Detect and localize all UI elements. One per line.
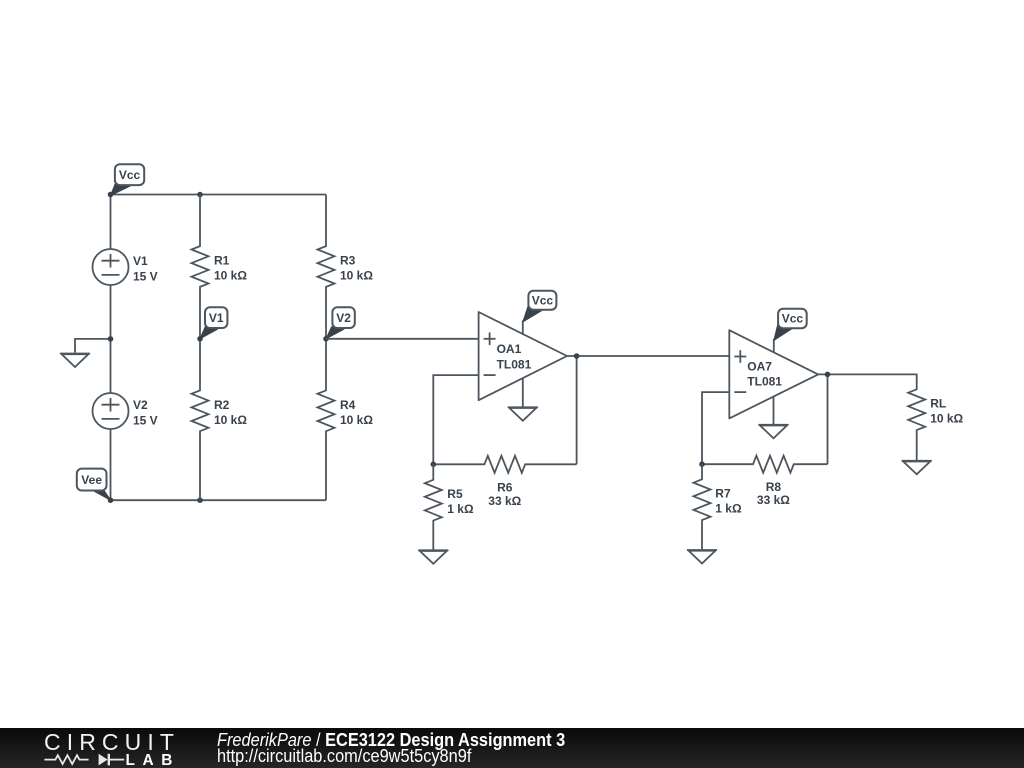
junction node (200,194.5)	[197, 192, 203, 198]
svg-text:10 kΩ: 10 kΩ	[930, 412, 963, 426]
net flag node V1	[200, 307, 227, 339]
resistor R5 1 k	[425, 464, 442, 549]
svg-text:R4: R4	[340, 398, 356, 412]
svg-text:TL081: TL081	[747, 375, 782, 389]
credit text	[217, 732, 565, 764]
svg-text:V2: V2	[133, 398, 148, 412]
svg-text:R7: R7	[715, 487, 731, 501]
svg-text:1 kΩ: 1 kΩ	[447, 502, 474, 516]
wire OA7 output	[818, 374, 917, 389]
wire OA1 feedback vertical	[576, 356, 578, 464]
svg-text:33 kΩ: 33 kΩ	[488, 494, 521, 508]
svg-text:R8: R8	[766, 480, 782, 494]
net flag Vee	[77, 469, 111, 501]
svg-text:10 kΩ: 10 kΩ	[214, 413, 247, 427]
op-amp OA1 TL081	[479, 312, 567, 400]
resistor R8 33 k	[702, 456, 828, 473]
wire OA1 minus input feedback	[433, 375, 478, 464]
resistor RL 10 k	[908, 389, 925, 460]
net flag node V2	[326, 307, 355, 339]
resistor R2 10 k	[192, 339, 209, 500]
svg-text:1 kΩ: 1 kΩ	[715, 502, 742, 516]
ground OA7	[759, 425, 789, 439]
wire OA7 minus input feedback	[702, 392, 729, 464]
wire OA7 V+ stub	[773, 339, 775, 353]
svg-text:10 kΩ: 10 kΩ	[214, 269, 247, 283]
svg-text:Vcc: Vcc	[119, 168, 141, 182]
net flag OA7 Vcc	[774, 309, 807, 341]
svg-text:OA7: OA7	[747, 360, 772, 374]
resistor R1 10 k	[192, 195, 209, 339]
voltage source V2	[93, 393, 129, 429]
wire OA1 V+ stub	[522, 321, 524, 335]
svg-text:33 kΩ: 33 kΩ	[757, 493, 790, 507]
wire ground stub	[75, 339, 111, 353]
svg-text:R1: R1	[214, 254, 230, 268]
wire OA7 V- stub	[773, 396, 775, 424]
voltage source V1	[93, 249, 129, 285]
net flag OA1 Vcc	[523, 291, 557, 322]
svg-text:Vee: Vee	[81, 473, 102, 487]
junction node (827.5,374.4)	[825, 372, 831, 378]
svg-text:10 kΩ: 10 kΩ	[340, 269, 373, 283]
op-amp OA7 TL081	[729, 330, 818, 418]
svg-text:Vcc: Vcc	[782, 312, 804, 326]
CircuitLab logo	[0, 728, 220, 768]
junction node (110.5,500.2)	[108, 497, 114, 503]
svg-text:V1: V1	[209, 311, 224, 325]
junction node (200,500.2)	[197, 497, 203, 503]
junction node (110.5,338.9)	[108, 336, 114, 342]
junction node (702,464.2)	[699, 461, 705, 467]
net flag Vcc main	[111, 164, 145, 195]
ground R7	[687, 550, 717, 564]
ground left	[60, 354, 90, 368]
svg-text:15 V: 15 V	[133, 413, 158, 427]
ground RL	[902, 461, 932, 475]
svg-text:V1: V1	[133, 254, 148, 268]
resistor R3 10 k	[318, 195, 335, 339]
svg-text:V2: V2	[336, 311, 351, 325]
svg-text:10 kΩ: 10 kΩ	[340, 413, 373, 427]
svg-text:LAB: LAB	[126, 752, 180, 768]
junction node (576.6,356)	[574, 353, 580, 359]
resistor R7 1 k	[694, 464, 711, 549]
resistor R6 33 k	[433, 456, 576, 473]
wire bottom rail Vee	[111, 499, 327, 501]
resistor R4 10 k	[318, 339, 335, 500]
wire OA1 output	[567, 355, 729, 357]
svg-text:TL081: TL081	[497, 357, 532, 371]
junction node (110.5,194.5)	[108, 192, 114, 198]
wire left column	[110, 195, 112, 501]
ground OA1	[508, 407, 538, 421]
wire R8 feedback vertical	[827, 374, 829, 464]
wire top rail Vcc	[111, 194, 327, 196]
wire OA1 V- stub	[522, 378, 524, 407]
svg-text:R3: R3	[340, 254, 356, 268]
ground R5	[418, 550, 448, 564]
svg-text:OA1: OA1	[497, 342, 522, 356]
junction node (326,338.8)	[323, 336, 329, 342]
junction node (433.3,464.3)	[431, 462, 437, 468]
svg-text:R2: R2	[214, 398, 230, 412]
junction node (200,338.8)	[197, 336, 203, 342]
svg-text:15 V: 15 V	[133, 269, 158, 283]
footer bar	[0, 728, 1024, 768]
svg-text:RL: RL	[930, 397, 946, 411]
svg-text:R6: R6	[497, 481, 513, 495]
wire V2 to OA1 plus input	[326, 338, 479, 340]
svg-text:Vcc: Vcc	[532, 293, 554, 307]
svg-text:R5: R5	[447, 487, 463, 501]
